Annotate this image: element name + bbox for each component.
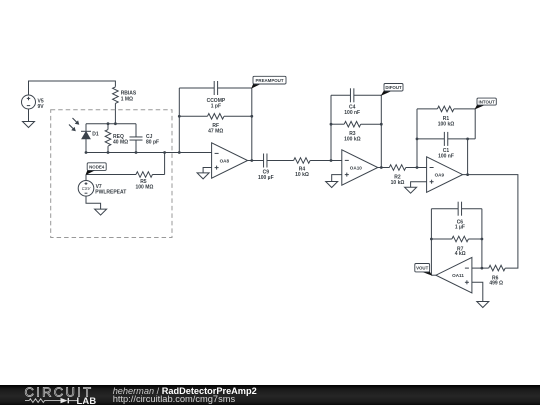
node (107, 122, 110, 125)
ground (326, 182, 338, 188)
svg-text:VOUT: VOUT (416, 265, 429, 270)
svg-text:100 kΩ: 100 kΩ (344, 137, 361, 143)
svg-text:http://circuitlab.com/cmg7sms: http://circuitlab.com/cmg7sms (113, 394, 236, 404)
svg-text:100 kΩ: 100 kΩ (438, 122, 455, 128)
node (416, 138, 419, 141)
node (416, 166, 419, 169)
svg-text:INTOUT: INTOUT (479, 99, 496, 104)
voltage source V7 (78, 175, 126, 197)
wire (86, 196, 101, 209)
node (481, 267, 484, 270)
flag PREAMPOUT (252, 83, 261, 89)
capacitor C1 (417, 132, 475, 160)
wire (86, 152, 212, 154)
svg-text:4 kΩ: 4 kΩ (455, 251, 466, 257)
wire (416, 109, 418, 168)
wire (28, 109, 30, 122)
svg-text:1 MΩ: 1 MΩ (121, 96, 133, 102)
wire (251, 88, 253, 161)
node (430, 238, 433, 241)
svg-text:OA10: OA10 (350, 165, 362, 170)
node (250, 115, 253, 118)
resistor R7 (431, 236, 482, 257)
voltage source V5 (22, 95, 45, 110)
photodiode D1 (69, 118, 99, 153)
wire (481, 209, 483, 268)
node (466, 138, 469, 141)
node (330, 123, 333, 126)
wire (380, 95, 382, 167)
svg-text:9V: 9V (38, 104, 45, 110)
capacitor C9 (258, 154, 294, 182)
svg-text:100 nF: 100 nF (438, 154, 454, 160)
resistor RF (179, 114, 252, 135)
svg-text:40 MΩ: 40 MΩ (113, 139, 128, 145)
resistor R1 (417, 106, 475, 128)
ground (23, 122, 35, 128)
svg-text:OA11: OA11 (452, 273, 464, 278)
wire (430, 209, 432, 276)
node (481, 238, 484, 241)
flag NODE4 (86, 169, 95, 175)
svg-text:1 µF: 1 µF (455, 225, 465, 231)
svg-text:D1: D1 (92, 132, 99, 138)
node (178, 115, 181, 118)
capacitor C6 (431, 202, 482, 231)
node (107, 151, 110, 154)
wire (467, 139, 469, 175)
resistor REQ (105, 124, 128, 153)
svg-text:100 MΩ: 100 MΩ (136, 185, 154, 191)
resistor R5 (86, 172, 165, 191)
ground (95, 209, 107, 215)
logo resistor-diode glyph (25, 398, 61, 402)
resistor R3 (331, 121, 381, 142)
svg-text:CSV: CSV (82, 186, 92, 191)
svg-text:DIFOUT: DIFOUT (385, 85, 402, 90)
wire (164, 153, 166, 175)
CircuitLab logo wordmark (25, 384, 97, 405)
wire (248, 160, 264, 162)
svg-text:PWLREPEAT: PWLREPEAT (95, 189, 126, 195)
resistor RBIAS (113, 87, 137, 104)
wire (86, 123, 136, 125)
flag VOUT (422, 270, 432, 275)
op-amp OA9 (427, 157, 463, 193)
capacitor C4 (331, 88, 381, 116)
wire (474, 109, 476, 139)
svg-text:499 Ω: 499 Ω (489, 281, 503, 287)
dashed enclosure box (51, 110, 172, 238)
node (380, 123, 383, 126)
wire (330, 95, 332, 160)
node (466, 173, 469, 176)
wire (332, 175, 342, 182)
node (178, 151, 181, 154)
node (330, 159, 333, 162)
svg-text:47 MΩ: 47 MΩ (208, 129, 223, 135)
svg-text:10 kΩ: 10 kΩ (295, 172, 309, 178)
wire (203, 168, 212, 173)
capacitor CCOMP (179, 81, 252, 110)
ground (197, 173, 209, 179)
resistor R2 (389, 165, 427, 186)
resistor R4 (294, 158, 342, 178)
ground (477, 302, 489, 308)
wire (431, 274, 436, 276)
svg-text:100 nF: 100 nF (344, 110, 360, 116)
svg-text:1 pF: 1 pF (211, 104, 221, 110)
node (250, 159, 253, 162)
wire (29, 81, 116, 95)
wire (472, 267, 482, 269)
op-amp OA11 (436, 257, 472, 293)
svg-text:NODE4: NODE4 (89, 164, 105, 169)
footer bar (0, 385, 540, 406)
wire (463, 175, 518, 269)
wire (114, 103, 116, 123)
flag INTOUT (475, 104, 485, 109)
node (85, 151, 88, 154)
op-amp OA10 (342, 150, 378, 186)
op-amp OA8 (212, 143, 248, 179)
svg-text:LAB: LAB (77, 394, 97, 405)
resistor R6 (482, 265, 505, 286)
svg-text:OA9: OA9 (435, 172, 445, 177)
wire (411, 182, 427, 187)
svg-text:OA8: OA8 (220, 158, 230, 163)
node (380, 166, 383, 169)
svg-text:10 kΩ: 10 kΩ (391, 180, 405, 186)
wire (178, 88, 180, 153)
wire (472, 282, 483, 301)
node (163, 151, 166, 154)
ground (405, 187, 417, 193)
node (114, 122, 117, 125)
svg-text:PREAMPOUT: PREAMPOUT (255, 78, 283, 83)
node (135, 151, 138, 154)
capacitor CJ (130, 124, 160, 153)
svg-text:100 µF: 100 µF (258, 175, 274, 181)
flag DIFOUT (381, 90, 392, 96)
wire (378, 167, 390, 169)
svg-text:80 pF: 80 pF (146, 139, 159, 145)
